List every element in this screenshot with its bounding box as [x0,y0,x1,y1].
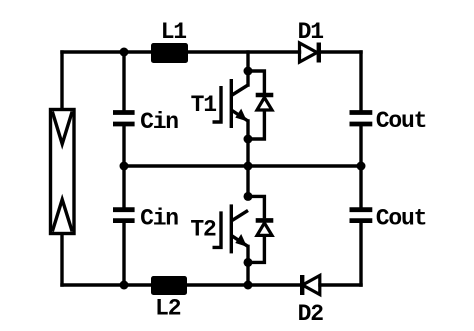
capacitor Cin bottom [113,210,135,221]
wire top rail L1 to D1 [188,50,300,53]
source arrow down [52,112,72,145]
wire left rail upper [60,52,63,109]
wire middle rail [124,164,361,167]
capacitor Cin top [113,113,135,125]
T2 body bar [230,204,233,253]
diode T2 antiparallel [248,196,273,262]
T1 emitter arrow [235,109,247,122]
wire Cin rail middle [122,125,125,209]
svg-text:Cout: Cout [376,108,426,134]
T1 gate lead [213,86,222,122]
wire bottom rail L2 to D2 [187,283,300,286]
T1 body bar [230,79,233,128]
svg-text:D1: D1 [298,19,324,45]
junction node bottom middle [244,281,253,290]
junction node middle rail center [244,162,253,171]
junction node T1 collector [244,67,253,76]
transistor T1 IGBT [213,79,249,128]
wire Cin rail lower [122,222,125,285]
inductor L1 [151,43,188,63]
wire top rail [62,50,151,53]
diode T1 antiparallel [248,71,273,139]
wire T1 emitter to mid [246,121,249,196]
wire right rail middle [359,125,362,209]
wire Cin rail upper [122,52,125,112]
T2 gate lead [213,211,222,247]
svg-text:T2: T2 [190,217,216,243]
T1 emitter diagonal [231,110,248,121]
T2 emitter diagonal [231,235,248,246]
transistor T2 IGBT [213,204,249,253]
svg-text:T1: T1 [191,92,217,118]
source PV rect [51,110,75,234]
T1 collector diagonal [231,85,248,96]
capacitor Cout top [350,113,373,125]
junction node mid Cout [357,162,366,171]
svg-text:L2: L2 [155,296,181,322]
T2 emitter arrow [235,234,247,247]
inductor L2 [151,276,187,295]
junction node T2 emitter [244,258,253,267]
diode D2 [302,275,320,295]
capacitor Cout bottom [350,210,373,221]
junction node T1 emitter [244,135,253,144]
wire bottom rail left [62,283,151,286]
wire T1 collector [246,52,249,85]
svg-text:Cin: Cin [140,206,178,232]
svg-text:Cin: Cin [140,109,178,135]
wire bottom rail D2 to right corner [320,283,361,286]
wire left rail lower [60,234,63,285]
source arrow up [52,200,72,232]
wire top rail D1 to right corner [321,50,361,53]
wire right rail lower [359,222,362,285]
junction node T2 collector [244,192,253,201]
T2 collector diagonal [231,210,248,221]
junction node bottom Cin [120,281,129,290]
wire right rail upper [359,52,362,112]
svg-text:L1: L1 [161,19,187,45]
svg-text:D2: D2 [298,301,324,327]
svg-text:Cout: Cout [376,206,426,232]
junction node top Cin [120,48,129,57]
wire T2 emitter to bottom [246,246,249,285]
diode D1 [300,43,319,63]
junction node mid Cin [120,162,129,171]
